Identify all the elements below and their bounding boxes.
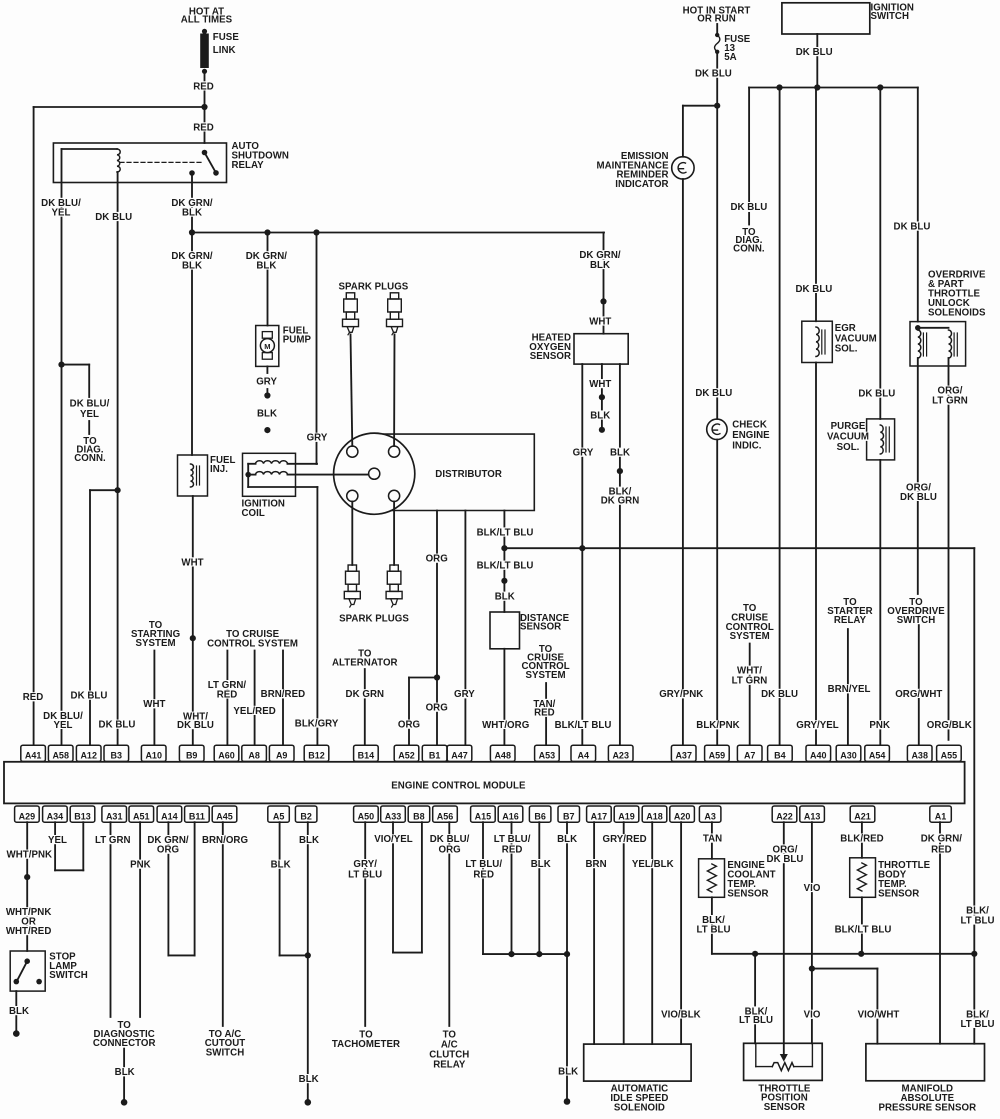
svg-text:ORG/WHT: ORG/WHT (895, 689, 942, 700)
svg-text:PNK: PNK (869, 720, 890, 731)
svg-text:A9: A9 (276, 751, 288, 761)
svg-text:A19: A19 (618, 811, 635, 821)
svg-text:DK BLU: DK BLU (858, 389, 895, 400)
svg-text:COIL: COIL (242, 508, 265, 519)
svg-text:ORG: ORG (426, 703, 448, 714)
svg-text:BLK: BLK (558, 1066, 578, 1077)
svg-text:SENSOR: SENSOR (878, 888, 919, 899)
svg-text:B8: B8 (413, 811, 425, 821)
svg-text:CONN.: CONN. (74, 453, 106, 464)
svg-text:INJ.: INJ. (210, 464, 228, 475)
svg-text:DK GRN: DK GRN (346, 689, 385, 700)
svg-text:B14: B14 (358, 751, 375, 761)
svg-text:RED: RED (23, 692, 44, 703)
svg-text:RED: RED (193, 122, 214, 133)
svg-text:VIO/BLK: VIO/BLK (661, 1009, 701, 1020)
svg-text:DK BLU: DK BLU (730, 202, 767, 213)
svg-text:A51: A51 (133, 811, 150, 821)
svg-text:BRN/RED: BRN/RED (261, 689, 305, 700)
svg-text:A45: A45 (216, 811, 233, 821)
svg-text:GRY: GRY (256, 377, 277, 388)
svg-text:RED: RED (502, 844, 523, 855)
svg-text:A31: A31 (106, 811, 123, 821)
svg-text:YEL: YEL (80, 409, 99, 420)
svg-text:A4: A4 (578, 751, 590, 761)
svg-text:YEL: YEL (52, 208, 71, 219)
svg-text:M: M (264, 342, 270, 351)
svg-text:LT GRN: LT GRN (95, 835, 131, 846)
svg-text:LT BLU: LT BLU (960, 1019, 994, 1030)
svg-text:DK BLU: DK BLU (95, 212, 132, 223)
svg-text:A1: A1 (935, 811, 947, 821)
svg-text:WHT: WHT (181, 557, 203, 568)
svg-text:SOLENOID: SOLENOID (614, 1103, 665, 1114)
svg-text:LINK: LINK (213, 45, 236, 56)
svg-text:ALL TIMES: ALL TIMES (181, 15, 233, 26)
svg-text:YEL: YEL (48, 835, 67, 846)
svg-text:RED: RED (193, 81, 214, 92)
svg-text:RED: RED (534, 708, 555, 719)
svg-text:GRY: GRY (573, 448, 594, 459)
svg-text:WHT: WHT (589, 316, 611, 327)
svg-text:GRY: GRY (454, 689, 475, 700)
svg-text:BLK: BLK (256, 260, 276, 271)
svg-text:YEL/BLK: YEL/BLK (632, 859, 674, 870)
svg-text:WHT: WHT (589, 379, 611, 390)
svg-text:B12: B12 (308, 751, 325, 761)
svg-text:LT GRN: LT GRN (932, 396, 968, 407)
svg-text:ALTERNATOR: ALTERNATOR (332, 658, 398, 669)
svg-text:DK BLU: DK BLU (894, 222, 931, 233)
svg-text:DK BLU: DK BLU (761, 689, 798, 700)
svg-text:SWITCH: SWITCH (897, 615, 936, 626)
svg-text:B6: B6 (534, 811, 546, 821)
svg-text:CONNECTOR: CONNECTOR (93, 1038, 156, 1049)
svg-text:YEL/RED: YEL/RED (233, 706, 275, 717)
svg-text:VIO/YEL: VIO/YEL (374, 834, 413, 845)
svg-text:ORG: ORG (398, 720, 420, 731)
svg-text:RELAY: RELAY (834, 615, 867, 626)
svg-text:A38: A38 (911, 751, 928, 761)
svg-text:FUSE: FUSE (213, 32, 240, 43)
svg-text:ORG: ORG (426, 554, 448, 565)
svg-text:YEL: YEL (54, 720, 73, 731)
svg-text:PNK: PNK (130, 860, 151, 871)
svg-text:B11: B11 (189, 811, 205, 821)
svg-text:A30: A30 (840, 751, 857, 761)
svg-text:BLK/GRY: BLK/GRY (295, 718, 339, 729)
svg-text:ORG/BLK: ORG/BLK (927, 720, 972, 731)
svg-text:OR RUN: OR RUN (697, 14, 736, 25)
svg-text:DK BLU: DK BLU (900, 492, 937, 503)
svg-text:BLK: BLK (531, 859, 551, 870)
svg-text:DK BLU: DK BLU (177, 720, 214, 731)
svg-text:DK BLU: DK BLU (71, 691, 108, 702)
svg-text:LT BLU: LT BLU (960, 915, 994, 926)
svg-text:GRY/PNK: GRY/PNK (659, 689, 703, 700)
svg-text:B1: B1 (429, 751, 441, 761)
svg-text:A50: A50 (358, 811, 375, 821)
svg-text:A20: A20 (674, 811, 691, 821)
svg-text:A3: A3 (704, 811, 716, 821)
svg-text:VACUUM: VACUUM (827, 432, 869, 443)
svg-text:BLK/LT BLU: BLK/LT BLU (477, 527, 534, 538)
svg-text:BLK: BLK (590, 260, 610, 271)
svg-text:A40: A40 (810, 751, 827, 761)
svg-text:B2: B2 (300, 811, 312, 821)
svg-text:VIO/WHT: VIO/WHT (858, 1010, 900, 1021)
svg-text:BLK: BLK (9, 1006, 29, 1017)
svg-text:A7: A7 (744, 751, 756, 761)
svg-text:SWITCH: SWITCH (871, 11, 910, 22)
svg-text:B4: B4 (774, 751, 786, 761)
svg-text:BLK/LT BLU: BLK/LT BLU (835, 924, 892, 935)
svg-text:TACHOMETER: TACHOMETER (332, 1039, 400, 1050)
svg-text:DK BLU: DK BLU (795, 284, 832, 295)
svg-text:LT BLU: LT BLU (696, 925, 730, 936)
svg-text:A34: A34 (47, 811, 64, 821)
svg-text:A8: A8 (248, 751, 260, 761)
svg-text:A18: A18 (646, 811, 663, 821)
svg-text:A13: A13 (804, 811, 821, 821)
svg-text:ORG: ORG (438, 844, 460, 855)
svg-text:BLK: BLK (299, 835, 319, 846)
svg-text:WHT/ORG: WHT/ORG (482, 720, 529, 731)
svg-text:A14: A14 (161, 811, 178, 821)
svg-text:BLK: BLK (182, 208, 202, 219)
svg-text:SENSOR: SENSOR (727, 888, 768, 899)
svg-text:A23: A23 (612, 751, 629, 761)
svg-text:A56: A56 (437, 811, 454, 821)
svg-text:BLK/LT BLU: BLK/LT BLU (555, 720, 612, 731)
svg-text:A12: A12 (80, 751, 97, 761)
svg-text:BLK/PNK: BLK/PNK (696, 720, 739, 731)
svg-text:A16: A16 (502, 811, 519, 821)
svg-text:BLK: BLK (257, 409, 277, 420)
svg-text:A53: A53 (539, 751, 556, 761)
svg-text:CONN.: CONN. (733, 243, 765, 254)
svg-text:A10: A10 (145, 751, 162, 761)
svg-text:SOL.: SOL. (835, 344, 858, 355)
svg-text:A52: A52 (398, 751, 415, 761)
svg-text:DK BLU: DK BLU (796, 47, 833, 58)
svg-text:B3: B3 (111, 751, 123, 761)
svg-text:A33: A33 (385, 811, 402, 821)
svg-text:DK BLU/: DK BLU/ (70, 399, 110, 410)
svg-text:VIO: VIO (804, 1010, 821, 1021)
svg-text:SENSOR: SENSOR (520, 621, 561, 632)
svg-text:A37: A37 (675, 751, 692, 761)
svg-text:PURGE: PURGE (831, 421, 866, 432)
svg-text:RED: RED (473, 869, 494, 880)
svg-text:BLK: BLK (495, 592, 515, 603)
svg-text:BRN/ORG: BRN/ORG (202, 835, 248, 846)
svg-text:SYSTEM: SYSTEM (730, 631, 770, 642)
svg-text:GRY/RED: GRY/RED (603, 834, 647, 845)
svg-text:DK BLU: DK BLU (99, 720, 136, 731)
svg-text:WHT: WHT (143, 699, 165, 710)
svg-text:RED: RED (217, 689, 238, 700)
svg-text:INDIC.: INDIC. (732, 440, 762, 451)
svg-text:BLK: BLK (271, 860, 291, 871)
svg-text:A59: A59 (709, 751, 726, 761)
svg-text:BLK/LT BLU: BLK/LT BLU (477, 561, 534, 572)
svg-text:GRY: GRY (307, 433, 328, 444)
svg-text:BLK: BLK (590, 410, 610, 421)
svg-text:DK BLU: DK BLU (767, 854, 804, 865)
svg-text:B7: B7 (563, 811, 575, 821)
svg-text:B13: B13 (74, 811, 91, 821)
svg-text:RELAY: RELAY (232, 160, 265, 171)
svg-text:DK GRN: DK GRN (601, 496, 640, 507)
svg-text:BLK: BLK (299, 1074, 319, 1085)
svg-text:TAN: TAN (703, 834, 722, 845)
svg-text:A5: A5 (273, 811, 285, 821)
svg-text:ORG: ORG (157, 845, 179, 856)
svg-text:A21: A21 (854, 811, 871, 821)
svg-text:SOL.: SOL. (837, 442, 860, 453)
svg-text:ENGINE: ENGINE (732, 430, 770, 441)
svg-text:BRN: BRN (586, 859, 607, 870)
svg-text:RED: RED (931, 844, 952, 855)
svg-text:SPARK PLUGS: SPARK PLUGS (338, 282, 408, 293)
svg-text:A41: A41 (25, 751, 42, 761)
svg-text:DK BLU: DK BLU (695, 388, 732, 399)
svg-text:SENSOR: SENSOR (764, 1102, 805, 1113)
svg-text:A22: A22 (776, 811, 793, 821)
svg-text:A29: A29 (19, 811, 36, 821)
svg-text:SOLENOIDS: SOLENOIDS (928, 308, 986, 319)
svg-text:CHECK: CHECK (732, 419, 767, 430)
svg-text:DK BLU: DK BLU (695, 69, 732, 80)
svg-text:GRY/YEL: GRY/YEL (796, 720, 839, 731)
svg-text:WHT/PNK: WHT/PNK (7, 850, 53, 861)
svg-text:LT GRN: LT GRN (732, 676, 768, 687)
svg-text:A60: A60 (218, 751, 235, 761)
svg-text:PRESSURE SENSOR: PRESSURE SENSOR (878, 1102, 976, 1113)
svg-text:SYSTEM: SYSTEM (526, 670, 566, 681)
svg-text:A17: A17 (591, 811, 608, 821)
svg-text:WHT/RED: WHT/RED (6, 926, 52, 937)
svg-text:ENGINE CONTROL MODULE: ENGINE CONTROL MODULE (391, 781, 526, 792)
svg-text:BRN/YEL: BRN/YEL (828, 684, 871, 695)
svg-text:INDICATOR: INDICATOR (615, 179, 668, 190)
svg-text:VIO: VIO (804, 883, 821, 894)
svg-text:BLK: BLK (115, 1067, 135, 1078)
svg-text:LT BLU: LT BLU (739, 1015, 773, 1026)
svg-text:SPARK PLUGS: SPARK PLUGS (339, 614, 409, 625)
svg-text:BLK/RED: BLK/RED (840, 834, 883, 845)
svg-text:LT BLU: LT BLU (348, 869, 382, 880)
svg-text:5A: 5A (724, 52, 736, 63)
svg-text:SWITCH: SWITCH (49, 970, 88, 981)
svg-text:A54: A54 (869, 751, 886, 761)
svg-text:SENSOR: SENSOR (530, 351, 571, 362)
svg-text:A48: A48 (494, 751, 511, 761)
svg-text:BLK: BLK (182, 260, 202, 271)
svg-text:BLK: BLK (557, 834, 577, 845)
svg-text:SYSTEM: SYSTEM (136, 638, 176, 649)
svg-text:B9: B9 (186, 751, 198, 761)
svg-text:PUMP: PUMP (283, 335, 312, 346)
svg-text:A55: A55 (941, 751, 958, 761)
svg-text:DISTRIBUTOR: DISTRIBUTOR (435, 469, 502, 480)
svg-text:SWITCH: SWITCH (206, 1047, 245, 1058)
svg-text:CONTROL SYSTEM: CONTROL SYSTEM (207, 638, 298, 649)
svg-text:BLK: BLK (610, 448, 630, 459)
svg-text:A58: A58 (52, 751, 69, 761)
svg-text:RELAY: RELAY (433, 1059, 466, 1070)
svg-text:A47: A47 (451, 751, 468, 761)
svg-text:DK GRN/: DK GRN/ (921, 834, 963, 845)
svg-text:A15: A15 (475, 811, 492, 821)
